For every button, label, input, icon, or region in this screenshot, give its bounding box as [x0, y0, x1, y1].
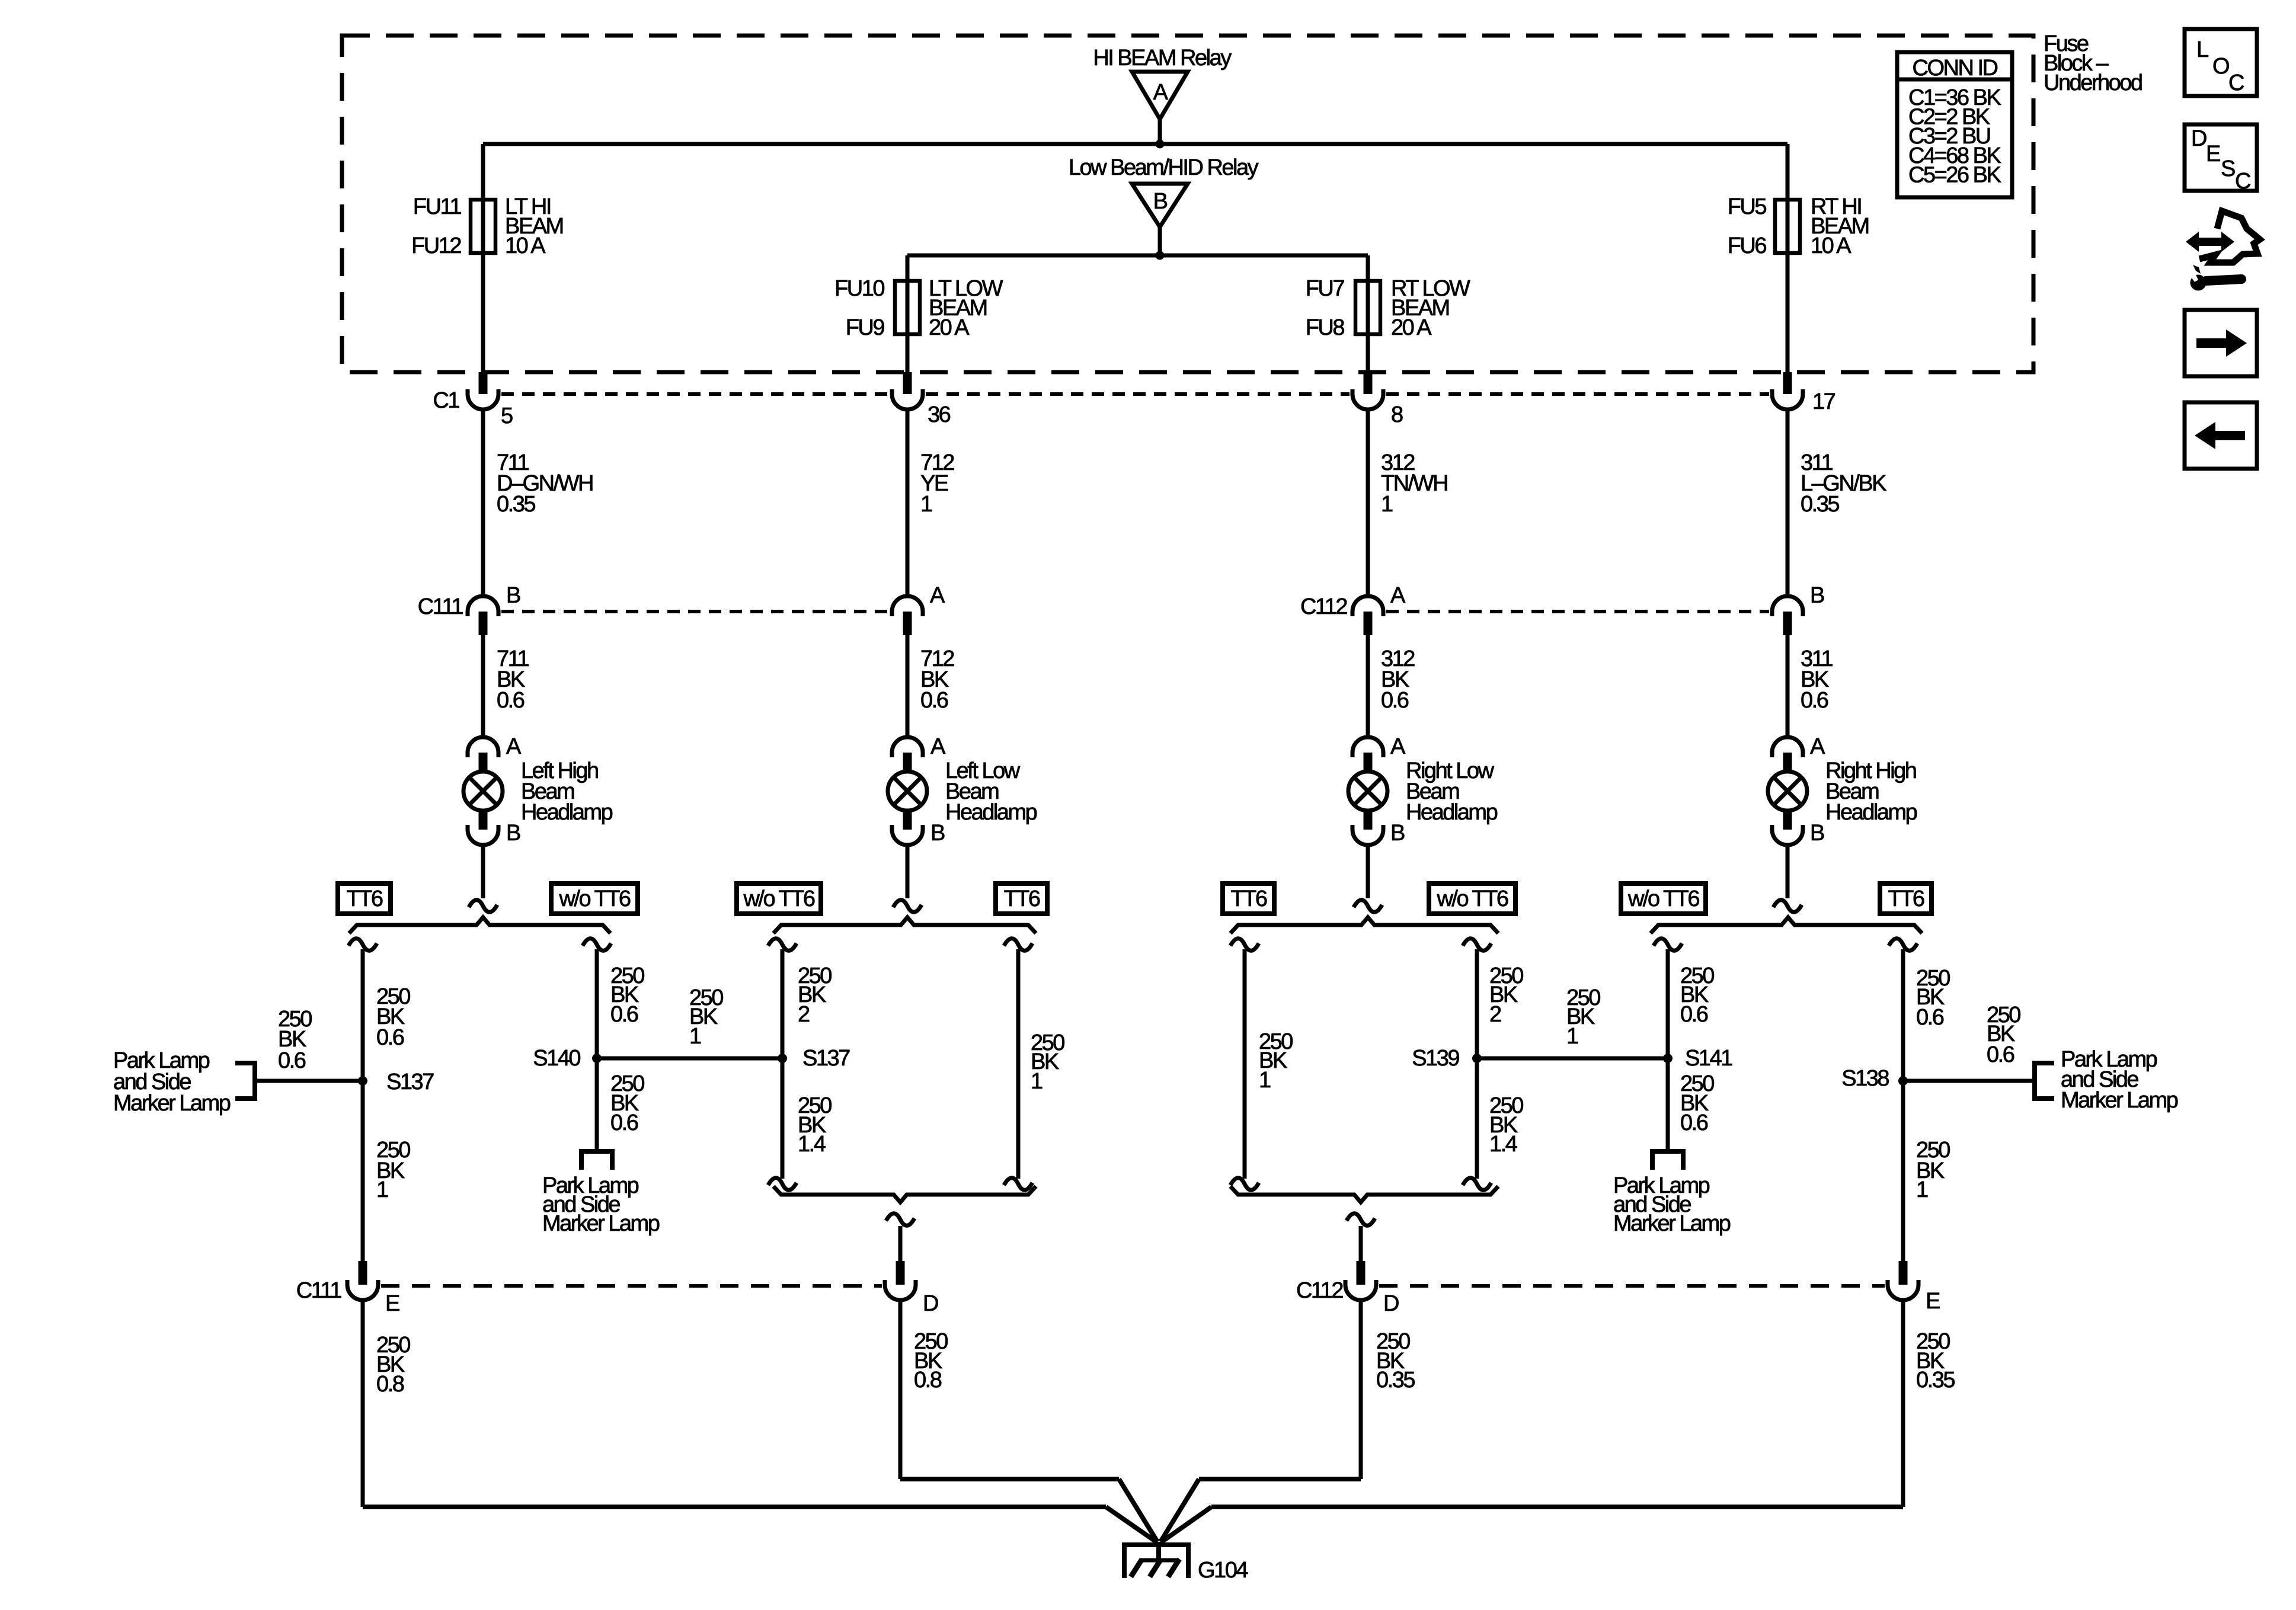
- svg-text:FU8: FU8: [1306, 315, 1345, 340]
- svg-text:TT6: TT6: [1230, 886, 1267, 911]
- svg-text:0.6: 0.6: [497, 688, 525, 713]
- svg-text:C112: C112: [1296, 1278, 1343, 1303]
- svg-text:TT6: TT6: [1888, 886, 1924, 911]
- svg-text:S140: S140: [533, 1046, 580, 1071]
- svg-text:TT6: TT6: [1003, 886, 1040, 911]
- svg-text:1.4: 1.4: [798, 1132, 826, 1157]
- svg-text:0.6: 0.6: [376, 1025, 404, 1050]
- svg-text:Headlamp: Headlamp: [945, 800, 1037, 825]
- svg-text:B: B: [506, 821, 520, 846]
- svg-text:0.6: 0.6: [610, 1110, 638, 1135]
- svg-text:A: A: [1390, 734, 1406, 759]
- svg-text:20 A: 20 A: [1391, 315, 1432, 340]
- svg-text:Marker Lamp: Marker Lamp: [2061, 1088, 2178, 1113]
- svg-text:E: E: [1926, 1289, 1940, 1314]
- svg-text:G104: G104: [1198, 1558, 1248, 1583]
- svg-text:2: 2: [798, 1002, 810, 1027]
- svg-text:FU11: FU11: [413, 194, 461, 219]
- svg-text:A: A: [1810, 734, 1825, 759]
- svg-text:E: E: [2206, 142, 2220, 167]
- svg-text:B: B: [1810, 821, 1824, 846]
- svg-text:0.6: 0.6: [278, 1048, 306, 1073]
- svg-text:0.6: 0.6: [1680, 1110, 1708, 1135]
- svg-text:HI BEAM Relay: HI BEAM Relay: [1093, 46, 1232, 71]
- svg-text:1.4: 1.4: [1489, 1132, 1518, 1157]
- svg-text:36: 36: [928, 402, 951, 427]
- svg-text:w/o TT6: w/o TT6: [743, 886, 814, 911]
- svg-text:S139: S139: [1412, 1046, 1459, 1071]
- svg-text:B: B: [1153, 189, 1168, 214]
- svg-text:C111: C111: [296, 1278, 342, 1303]
- svg-text:C5=26 BK: C5=26 BK: [1908, 162, 2001, 187]
- svg-text:1: 1: [1916, 1177, 1928, 1202]
- svg-text:0.35: 0.35: [1801, 492, 1839, 517]
- svg-text:S: S: [2221, 156, 2235, 181]
- svg-text:0.6: 0.6: [1381, 688, 1409, 713]
- svg-text:FU12: FU12: [411, 233, 461, 258]
- svg-text:Marker Lamp: Marker Lamp: [1613, 1211, 1731, 1236]
- svg-text:5: 5: [501, 404, 513, 428]
- svg-text:1: 1: [376, 1177, 388, 1202]
- svg-text:S138: S138: [1841, 1066, 1889, 1091]
- svg-text:0.35: 0.35: [497, 492, 535, 517]
- svg-text:Underhood: Underhood: [2044, 71, 2142, 95]
- svg-text:D: D: [923, 1291, 938, 1316]
- svg-text:FU7: FU7: [1306, 276, 1345, 301]
- svg-text:C1: C1: [433, 388, 459, 413]
- svg-text:CONN ID: CONN ID: [1913, 56, 1998, 81]
- svg-text:w/o TT6: w/o TT6: [558, 886, 630, 911]
- svg-text:D: D: [2191, 126, 2207, 151]
- svg-text:S137: S137: [386, 1070, 434, 1094]
- svg-text:B: B: [1390, 821, 1405, 846]
- svg-text:Headlamp: Headlamp: [1825, 800, 1917, 825]
- svg-text:A: A: [1153, 80, 1169, 105]
- svg-text:FU6: FU6: [1728, 233, 1767, 258]
- svg-text:1: 1: [1381, 492, 1393, 517]
- svg-text:17: 17: [1812, 389, 1835, 414]
- svg-text:A: A: [506, 734, 522, 759]
- svg-text:10 A: 10 A: [1811, 233, 1851, 258]
- svg-text:D: D: [1383, 1291, 1399, 1316]
- svg-text:8: 8: [1391, 402, 1403, 427]
- svg-text:A: A: [1390, 583, 1406, 608]
- svg-text:0.6: 0.6: [920, 688, 948, 713]
- svg-text:0.35: 0.35: [1916, 1368, 1955, 1393]
- svg-text:10 A: 10 A: [505, 233, 546, 258]
- svg-text:O: O: [2212, 54, 2229, 79]
- svg-text:TT6: TT6: [346, 886, 382, 911]
- svg-text:B: B: [1810, 583, 1824, 608]
- svg-text:1: 1: [1259, 1068, 1271, 1093]
- svg-text:B: B: [930, 821, 945, 846]
- svg-text:S141: S141: [1685, 1046, 1732, 1071]
- svg-text:FU10: FU10: [834, 276, 884, 301]
- svg-text:C111: C111: [418, 594, 463, 619]
- svg-text:1: 1: [689, 1024, 701, 1049]
- svg-text:C: C: [2235, 169, 2250, 194]
- svg-text:A: A: [930, 734, 946, 759]
- svg-text:L: L: [2196, 37, 2208, 62]
- svg-text:0.8: 0.8: [914, 1368, 942, 1393]
- svg-text:FU5: FU5: [1728, 194, 1767, 219]
- svg-text:Headlamp: Headlamp: [521, 800, 613, 825]
- svg-text:1: 1: [920, 492, 932, 517]
- svg-text:0.6: 0.6: [1916, 1005, 1944, 1030]
- svg-text:0.6: 0.6: [1801, 688, 1828, 713]
- svg-text:1: 1: [1031, 1069, 1043, 1094]
- svg-text:Headlamp: Headlamp: [1406, 800, 1498, 825]
- svg-text:Low Beam/HID Relay: Low Beam/HID Relay: [1069, 155, 1259, 180]
- svg-text:20 A: 20 A: [929, 315, 970, 340]
- svg-text:E: E: [385, 1291, 399, 1316]
- svg-text:C112: C112: [1300, 594, 1347, 619]
- svg-text:A: A: [930, 583, 945, 608]
- svg-text:1: 1: [1566, 1024, 1578, 1049]
- svg-text:0.35: 0.35: [1376, 1368, 1415, 1393]
- svg-text:C: C: [2228, 71, 2244, 95]
- svg-text:2: 2: [1489, 1002, 1501, 1027]
- svg-text:0.6: 0.6: [1987, 1042, 2014, 1067]
- svg-text:w/o TT6: w/o TT6: [1436, 886, 1508, 911]
- svg-text:Marker Lamp: Marker Lamp: [542, 1211, 660, 1236]
- svg-text:0.8: 0.8: [376, 1372, 404, 1397]
- svg-text:w/o TT6: w/o TT6: [1627, 886, 1699, 911]
- svg-text:FU9: FU9: [846, 315, 885, 340]
- svg-text:0.6: 0.6: [610, 1002, 638, 1027]
- svg-text:Marker Lamp: Marker Lamp: [113, 1091, 231, 1116]
- svg-text:B: B: [506, 583, 520, 608]
- svg-text:S137: S137: [802, 1046, 850, 1071]
- svg-text:0.6: 0.6: [1680, 1002, 1708, 1027]
